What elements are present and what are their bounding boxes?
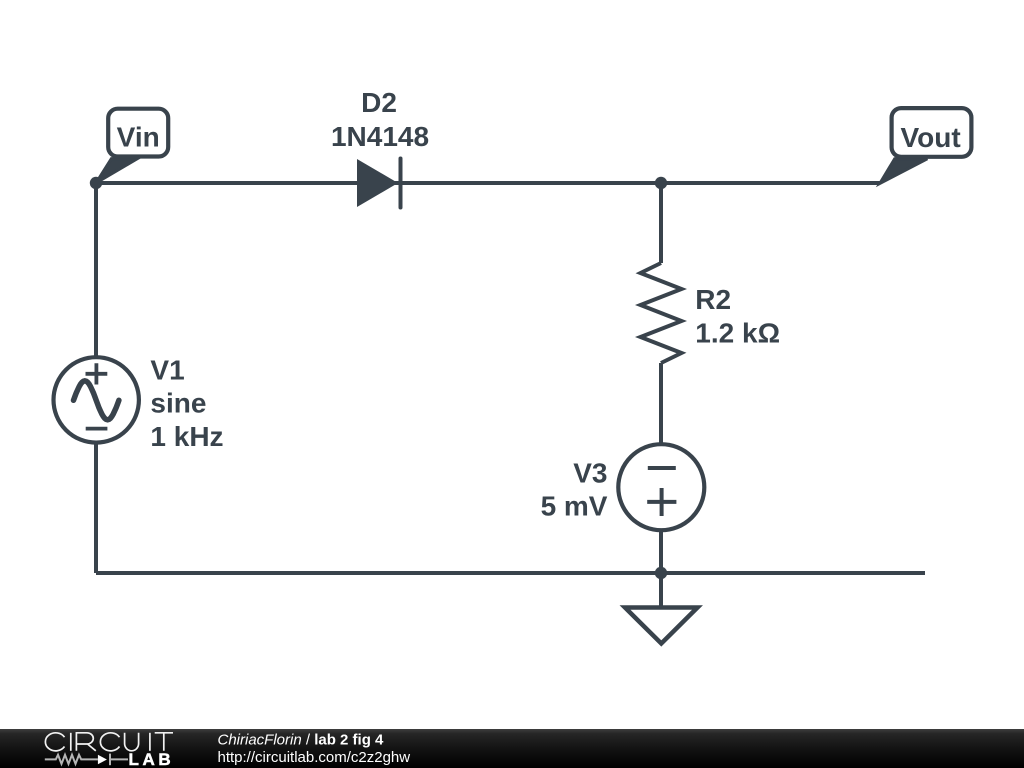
node Vout junction dot [655,177,667,189]
svg-text:Vout: Vout [901,122,961,153]
logo letter U [125,733,139,751]
flag Vout tail [880,159,928,184]
wire resistor R2 to V3 top [659,363,663,445]
svg-text:LAB: LAB [129,750,175,768]
flag Vin tail [96,159,137,183]
svg-text:http://circuitlab.com/c2z2ghw: http://circuitlab.com/c2z2ghw [218,749,411,766]
logo letter C [45,733,64,751]
flag Vin box [108,109,168,157]
wire V3 bottom to ground net [659,529,663,573]
svg-text:ChiriacFlorin / lab 2 fig 4: ChiriacFlorin / lab 2 fig 4 [218,731,385,748]
svg-text:V3: V3 [573,458,607,489]
logo diode triangle [98,755,107,765]
diode D2 cathode bar [399,159,403,208]
source V1 circle [53,357,138,442]
source V1 plus sign [86,363,108,384]
svg-text:Vin: Vin [117,121,160,152]
wire top net Vin to diode to Vout [96,181,880,185]
svg-text:V1: V1 [150,355,184,386]
source V3 minus sign [648,466,676,470]
source V1 sine wave [74,381,119,420]
wire Vin node down to V1 top [94,183,98,358]
logo letter R [76,733,95,751]
ground symbol triangle [625,608,698,644]
svg-text:D2: D2 [361,87,397,118]
node Vin junction dot [90,177,102,189]
svg-text:1.2 kΩ: 1.2 kΩ [695,317,780,348]
source V3 plus sign [647,488,676,516]
wire ground net bottom [96,571,925,575]
logo resistor-diode line [45,754,128,766]
svg-text:5 mV: 5 mV [541,490,608,521]
svg-text:R2: R2 [695,284,731,315]
wire ground net to ground symbol [659,573,663,608]
svg-text:1N4148: 1N4148 [331,121,429,152]
flag Vout box [892,108,972,157]
source V1 minus sign [86,427,108,431]
source V3 circle [618,444,704,530]
node ground junction dot [655,567,667,579]
resistor R2 zigzag [641,263,682,363]
logo letter I [149,733,151,751]
svg-text:sine: sine [150,388,206,419]
svg-text:1 kHz: 1 kHz [150,421,223,452]
logo letter C [100,733,119,751]
logo letter I [70,733,72,751]
logo letter T [155,733,173,751]
diode D2 triangle [357,159,398,207]
wire V1 bottom to ground net [94,442,98,573]
logo CIRCUIT letters [45,733,173,751]
wire junction down to resistor R2 [659,183,663,263]
